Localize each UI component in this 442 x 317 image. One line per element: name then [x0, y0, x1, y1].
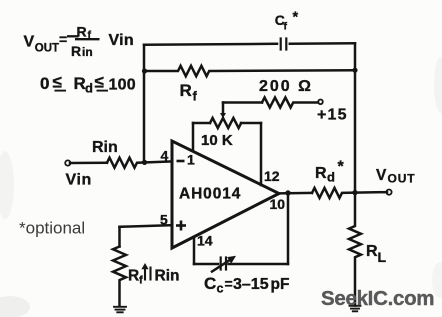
- wire Cc bottom right segment: [229, 263, 289, 266]
- wire pin5 branch down: [118, 227, 121, 247]
- svg-text:in: in: [82, 45, 93, 59]
- wire Cc right vertical to output: [287, 193, 290, 264]
- svg-text:L: L: [378, 249, 387, 265]
- svg-text:200 Ω: 200 Ω: [259, 78, 313, 95]
- svg-text:Rin: Rin: [92, 139, 118, 156]
- ground under RL: [350, 306, 361, 312]
- svg-text:SeekIC.com: SeekIC.com: [321, 287, 434, 310]
- node junction Cc/output: [285, 190, 290, 195]
- terminal +15 circle: [318, 100, 323, 105]
- svg-text:OUT: OUT: [35, 43, 59, 55]
- resistor RL: [349, 193, 361, 306]
- svg-text:3–15: 3–15: [233, 276, 269, 293]
- svg-text:d: d: [327, 170, 335, 185]
- wire top feedback right segment: [290, 42, 355, 45]
- svg-text:≤: ≤: [95, 73, 104, 92]
- label minus input: [177, 160, 185, 163]
- svg-text:f: f: [139, 275, 143, 287]
- wire top feedback left segment: [144, 44, 277, 45]
- resistor Rd: [312, 188, 387, 198]
- svg-text:4: 4: [161, 148, 169, 164]
- wire right feedback vertical: [354, 43, 357, 192]
- wire pin 1 vertical: [192, 123, 195, 151]
- svg-text:f: f: [284, 21, 288, 33]
- svg-text:OUT: OUT: [388, 172, 416, 186]
- wire 10K left lead: [193, 122, 210, 125]
- svg-text:+15: +15: [317, 107, 348, 124]
- terminal Vin input circle: [65, 160, 70, 165]
- svg-text:=: =: [59, 31, 67, 47]
- svg-text:=: =: [225, 275, 233, 291]
- node junction Rd/RL/feedback: [352, 190, 357, 195]
- svg-text:≤: ≤: [53, 73, 62, 92]
- resistor Rf||Rin: [113, 247, 126, 307]
- wire left feedback vertical: [143, 45, 146, 163]
- terminal VOUT circle: [386, 190, 391, 195]
- wire Cc bottom left segment: [194, 263, 218, 266]
- wire output apex to Rd: [279, 192, 312, 195]
- node junction left-Rf: [142, 68, 147, 73]
- svg-text:*optional: *optional: [19, 219, 85, 238]
- svg-text:1: 1: [187, 152, 195, 168]
- svg-text:14: 14: [197, 233, 213, 249]
- svg-text:Rin: Rin: [155, 268, 180, 285]
- resistor Rf: [144, 66, 355, 76]
- node junction right-Rf: [352, 68, 357, 73]
- svg-text:R: R: [366, 243, 378, 260]
- svg-text:f: f: [193, 89, 198, 104]
- svg-text:V: V: [376, 167, 387, 184]
- label formula VOUT = -Rf/Rin Vin: [24, 24, 135, 60]
- resistor Rin: [107, 158, 172, 168]
- wire pin 12 vertical: [260, 123, 263, 185]
- svg-text:Vin: Vin: [109, 32, 135, 49]
- label 0 <= Rd <= 100: [40, 73, 136, 96]
- arrow variable Cc: [212, 261, 229, 272]
- svg-text:c: c: [217, 282, 224, 296]
- svg-text:100: 100: [109, 77, 136, 94]
- capacitor C_f plates: [281, 39, 287, 50]
- wiper arrow of 10K pot: [222, 103, 225, 114]
- wire input Vin to pin 4: [70, 161, 107, 164]
- svg-text:*: *: [293, 10, 299, 26]
- svg-text:d: d: [85, 81, 93, 96]
- svg-text:R: R: [77, 24, 87, 40]
- svg-text:AH0014: AH0014: [179, 186, 241, 203]
- svg-text:R: R: [74, 74, 86, 93]
- svg-text:R: R: [180, 81, 192, 100]
- svg-text:R: R: [128, 268, 139, 285]
- svg-text:*: *: [338, 159, 345, 176]
- svg-text:12: 12: [264, 168, 280, 184]
- svg-text:R: R: [315, 165, 327, 182]
- svg-text:V: V: [24, 34, 35, 51]
- svg-text:f: f: [88, 29, 92, 41]
- svg-text:5: 5: [160, 212, 168, 228]
- wire pin 14 vertical: [193, 237, 196, 264]
- potentiometer 10K body: [210, 118, 241, 128]
- node junction pin4/feedback: [142, 160, 147, 165]
- wire wiper to 200 ohm: [223, 101, 262, 104]
- svg-text:10 K: 10 K: [201, 132, 233, 149]
- label plus input: [176, 221, 186, 231]
- wire pin 5: [120, 225, 173, 227]
- op-amp U1 AH0014 triangle: [172, 141, 279, 248]
- svg-text:R: R: [71, 43, 81, 59]
- svg-text:C: C: [204, 274, 216, 293]
- resistor 200 ohm: [262, 98, 318, 108]
- wire 10K right lead: [241, 122, 261, 125]
- ground under Rf||Rin: [114, 307, 126, 313]
- svg-text:pF: pF: [271, 276, 290, 293]
- svg-text:Vin: Vin: [66, 172, 92, 189]
- svg-text:10: 10: [270, 196, 286, 212]
- svg-text:0: 0: [40, 74, 49, 93]
- capacitor Cc plates: [221, 258, 226, 270]
